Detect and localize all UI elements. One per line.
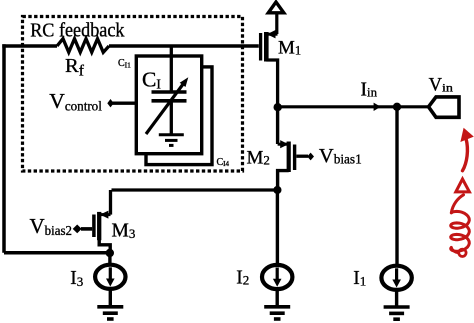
wire M3 drain to node C <box>112 188 278 191</box>
svg-text:I1: I1 <box>353 268 366 289</box>
svg-text:CI1: CI1 <box>118 58 131 69</box>
node B V_in <box>393 103 401 111</box>
wire cap bottom lead <box>170 101 173 134</box>
current source I1 <box>381 266 411 290</box>
dashed box RC feedback <box>23 17 243 172</box>
wire feedback left vertical <box>2 44 6 253</box>
wire I2 to ground <box>276 289 279 306</box>
current source I3 <box>95 265 125 289</box>
wire I1 to ground <box>395 290 398 306</box>
svg-text:RC feedback: RC feedback <box>30 20 124 42</box>
wire I_in <box>278 103 397 111</box>
wire node B to V_in tag <box>397 105 429 108</box>
red annotation triangle <box>456 179 470 192</box>
ground inside cap box <box>159 135 184 146</box>
node A M1 drain <box>274 103 282 111</box>
current source I2 <box>262 265 292 289</box>
ground I1 <box>384 307 410 319</box>
red annotation spring <box>451 195 470 253</box>
svg-text:M1: M1 <box>278 38 301 59</box>
resistor Rf <box>57 39 109 53</box>
wire I3 to ground <box>109 289 112 306</box>
ground I2 <box>264 307 290 319</box>
svg-text:Vcontrol: Vcontrol <box>49 89 102 114</box>
svg-text:I2: I2 <box>236 268 249 289</box>
port V_in tag <box>429 97 460 117</box>
variable capacitor C_I <box>146 77 188 134</box>
wire node B to I1 <box>395 107 398 265</box>
svg-text:M3: M3 <box>112 220 136 241</box>
svg-text:Iin: Iin <box>361 80 378 101</box>
svg-text:Vbias2: Vbias2 <box>30 214 72 239</box>
svg-text:Vbias1: Vbias1 <box>319 145 362 168</box>
node D M3 source <box>106 249 114 257</box>
wire node A to M2 <box>276 107 279 144</box>
wire resistor to M1 gate <box>109 44 259 47</box>
svg-text:CI4: CI4 <box>217 157 230 168</box>
arrow V_bias2 diamond <box>73 225 82 234</box>
capacitor C_I1 front box <box>136 56 201 154</box>
supply VDD <box>268 2 284 34</box>
wire input to resistor <box>2 44 57 47</box>
node C M2 source <box>273 186 281 194</box>
svg-text:Rf: Rf <box>65 55 85 80</box>
wire node D to I3 <box>108 253 111 265</box>
arrow V_control diamond <box>107 99 113 107</box>
capacitor C_I4 back box <box>146 67 212 165</box>
arrow V_bias1 diamond <box>307 153 314 161</box>
red annotation curved arrow <box>460 128 473 171</box>
wire node C to I2 <box>276 190 279 265</box>
wire V_control to cap box <box>112 101 136 104</box>
red annotation circle <box>459 249 466 256</box>
ground I3 <box>97 307 123 319</box>
transistor M1 <box>261 30 278 107</box>
svg-text:I3: I3 <box>70 268 83 289</box>
wire cap top lead <box>170 46 173 92</box>
transistor M2 <box>278 140 308 190</box>
svg-text:M2: M2 <box>247 148 270 169</box>
svg-text:Vin: Vin <box>429 75 453 95</box>
transistor M3 <box>81 190 111 253</box>
wire feedback bottom horizontal <box>4 251 110 255</box>
